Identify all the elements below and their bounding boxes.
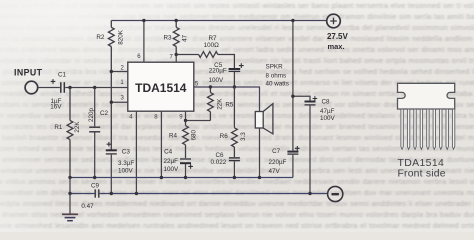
svg-text:C2: C2 [100, 110, 109, 117]
wire pin 6 to rail [143, 21, 145, 63]
svg-text:22K: 22K [74, 121, 81, 133]
junction node mid rail/R1 [68, 176, 71, 179]
svg-text:SPKR: SPKR [266, 64, 284, 71]
junction node mid rail/C6 [233, 176, 236, 179]
wire pin 3 [111, 101, 128, 103]
junction node lower rail/C3 [110, 192, 113, 195]
svg-text:220µF: 220µF [209, 68, 227, 75]
resistor R3 47 [173, 21, 179, 55]
capacitor C3 3.3uF 100V [106, 142, 135, 194]
terminal INPUT [14, 67, 43, 93]
ground [62, 194, 78, 221]
svg-text:100Ω: 100Ω [204, 42, 220, 49]
resistor R6 3.3 [231, 87, 237, 157]
junction node C7/C8 [291, 95, 294, 98]
junction node lower rail/ground [68, 192, 71, 195]
svg-text:C1: C1 [58, 71, 67, 78]
svg-text:8 ohms: 8 ohms [266, 73, 287, 80]
svg-text:16V: 16V [50, 104, 62, 111]
svg-text:27.5V: 27.5V [327, 32, 349, 41]
svg-text:220p: 220p [88, 108, 95, 123]
svg-text:47V: 47V [269, 168, 281, 175]
capacitor C5 220uF 100V [208, 62, 243, 87]
svg-text:Front side: Front side [398, 168, 446, 179]
wire pin 7 [175, 55, 177, 63]
junction node mid rail/C4 [184, 176, 187, 179]
svg-text:220µF: 220µF [269, 159, 287, 166]
capacitor C8 47uF 100V [305, 96, 336, 193]
junction node input/R1 [68, 86, 71, 89]
terminal minus [328, 186, 343, 201]
svg-text:TDA1514: TDA1514 [398, 158, 445, 169]
wire pin9 node to R5 [186, 120, 211, 122]
junction node out/R5 [209, 85, 212, 88]
junction node R2/pin2 [110, 70, 113, 73]
wire pin 9 [185, 111, 187, 120]
resistor R4 680 [183, 121, 189, 159]
junction node mid rail/speaker [258, 176, 261, 179]
svg-text:C4: C4 [164, 148, 173, 155]
capacitor C4 22uF 100V [164, 148, 193, 177]
junction node mid rail/pin8 [160, 176, 163, 179]
svg-text:100V: 100V [320, 115, 336, 122]
svg-text:max.: max. [327, 42, 344, 51]
speaker SPKR [255, 64, 289, 178]
junction node rail/R3 [175, 19, 178, 22]
wire to C8 [293, 96, 310, 101]
svg-text:0.47: 0.47 [81, 203, 94, 210]
junction node lower rail/C8 [308, 192, 311, 195]
svg-text:nedpla onsoned litesno dintes: nedpla onsoned litesno dintes meddermed … [0, 199, 474, 208]
junction node pin3/C3 [110, 101, 113, 104]
svg-text:820K: 820K [117, 29, 124, 45]
svg-text:0.022: 0.022 [211, 159, 227, 166]
svg-text:100V: 100V [164, 166, 180, 173]
capacitor C2 220p [88, 88, 109, 178]
svg-text:22K: 22K [216, 98, 223, 110]
svg-text:R1: R1 [54, 124, 63, 131]
svg-text:3.3: 3.3 [240, 132, 247, 141]
junction node R3/R7/pin7 [175, 53, 178, 56]
capacitor C1 1uF 16V [50, 71, 66, 110]
wire top supply rail [111, 20, 326, 22]
capacitor C6 0.022 [211, 152, 240, 178]
svg-text:C8: C8 [321, 99, 330, 106]
wire pin 4 [135, 111, 137, 193]
IC package TDA1514 front view [398, 83, 455, 179]
junction node mid rail/C2 [93, 176, 96, 179]
resistor R5 22K [207, 87, 213, 121]
svg-text:R3: R3 [163, 35, 172, 42]
resistor R1 22K [67, 88, 73, 178]
svg-text:R4: R4 [169, 133, 178, 140]
svg-text:100V: 100V [208, 77, 224, 84]
svg-text:C6: C6 [215, 152, 224, 159]
wire C1 to pin 1 [65, 87, 128, 89]
wire ground corner [69, 178, 71, 194]
junction node rail/+V drop [291, 19, 294, 22]
svg-text:R7: R7 [208, 35, 217, 42]
resistor R7 100ohm [176, 52, 234, 69]
svg-text:INPUT: INPUT [14, 67, 43, 77]
svg-text:C7: C7 [272, 148, 281, 155]
svg-text:47: 47 [182, 34, 189, 42]
svg-text:TDA1514: TDA1514 [135, 81, 187, 95]
wire output rail pin 5 [194, 87, 260, 111]
wire +V drop to C7/C8 [292, 21, 294, 151]
svg-text:47µF: 47µF [320, 108, 335, 115]
svg-text:R2: R2 [96, 34, 105, 41]
wire pin 2 [111, 71, 128, 73]
capacitor C9 0.47 [81, 183, 99, 211]
wire input to C1 [38, 87, 60, 89]
svg-text:3.3µF: 3.3µF [118, 160, 134, 167]
svg-text:C3: C3 [122, 149, 131, 156]
wire lower ground rail [70, 193, 328, 195]
terminal +27.5V [327, 14, 349, 51]
svg-text:R6: R6 [220, 133, 229, 140]
capacitor C7 220uF 47V [269, 146, 300, 178]
svg-text:sonie ortmenhed lesamidin ami: sonie ortmenhed lesamidin ami medelsen r… [0, 221, 474, 230]
junction node rail/pin6 [142, 19, 145, 22]
svg-text:100V: 100V [118, 167, 134, 174]
junction node input/C2 [93, 86, 96, 89]
svg-text:R5: R5 [225, 101, 234, 108]
svg-text:C9: C9 [91, 183, 100, 190]
svg-text:680: 680 [190, 129, 197, 140]
svg-text:22µF: 22µF [164, 158, 179, 165]
resistor R2 820K [108, 21, 114, 150]
junction node out/C5 [233, 85, 236, 88]
wire mid ground rail [70, 177, 293, 179]
IC U1 TDA1514 [128, 62, 194, 111]
junction node lower rail/pin4 [135, 192, 138, 195]
svg-text:40 watts: 40 watts [266, 80, 289, 87]
wire pin 8 [160, 111, 162, 177]
junction node pin9/R4/R5 [184, 119, 187, 122]
